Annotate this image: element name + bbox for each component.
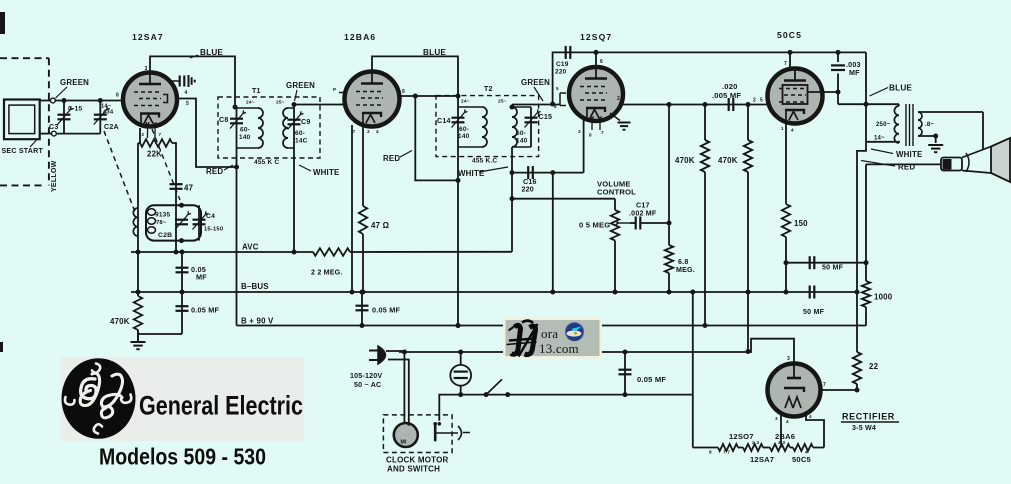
- svg-text:RED: RED: [206, 167, 223, 176]
- svg-text:4: 4: [809, 414, 812, 419]
- svg-text:BLUE: BLUE: [423, 48, 446, 57]
- svg-text:12SA7: 12SA7: [750, 455, 774, 464]
- svg-text:60-: 60-: [295, 130, 305, 137]
- svg-text:3: 3: [578, 129, 581, 134]
- svg-text:C14: C14: [437, 117, 451, 125]
- svg-text:5: 5: [760, 98, 763, 104]
- svg-text:C2A: C2A: [104, 123, 119, 131]
- svg-text:0 5 MEG: 0 5 MEG: [579, 221, 610, 230]
- svg-text:220: 220: [555, 69, 567, 76]
- svg-text:50 MF: 50 MF: [822, 264, 844, 272]
- svg-text:7: 7: [823, 382, 826, 388]
- svg-text:WHITE: WHITE: [896, 150, 922, 159]
- svg-text:8: 8: [709, 450, 712, 456]
- svg-text:105-120V: 105-120V: [350, 372, 382, 380]
- svg-text:C8: C8: [219, 116, 228, 124]
- svg-text:0.05 MF: 0.05 MF: [372, 306, 401, 315]
- svg-text:5: 5: [186, 101, 189, 107]
- svg-text:6: 6: [600, 59, 603, 65]
- svg-text:2 2 MEG.: 2 2 MEG.: [311, 269, 343, 277]
- svg-text:MEG.: MEG.: [676, 266, 695, 274]
- svg-text:24~: 24~: [246, 100, 255, 106]
- svg-text:470K: 470K: [110, 317, 130, 326]
- svg-text:13.com: 13.com: [539, 341, 579, 356]
- svg-text:0.05 MF: 0.05 MF: [637, 375, 666, 384]
- svg-text:3-5 W4: 3-5 W4: [852, 424, 876, 432]
- svg-text:2: 2: [753, 98, 756, 104]
- svg-text:CONTROL: CONTROL: [597, 188, 636, 197]
- svg-text:3: 3: [787, 356, 790, 362]
- svg-text:GREEN: GREEN: [521, 78, 550, 87]
- svg-text:140: 140: [516, 138, 528, 145]
- svg-text:WHITE: WHITE: [458, 169, 484, 178]
- svg-text:.005 MF: .005 MF: [712, 91, 741, 100]
- svg-text:3: 3: [775, 416, 778, 421]
- svg-text:25~: 25~: [276, 100, 285, 106]
- svg-text:47 Ω: 47 Ω: [371, 221, 389, 230]
- svg-text:8: 8: [589, 133, 592, 138]
- svg-text:60-: 60-: [516, 130, 526, 137]
- svg-text:50 MF: 50 MF: [803, 308, 825, 316]
- svg-text:BLUE: BLUE: [200, 48, 223, 57]
- svg-text:4: 4: [786, 419, 789, 424]
- svg-text:4: 4: [376, 129, 379, 134]
- svg-text:C9: C9: [301, 118, 310, 126]
- svg-text:470K: 470K: [718, 156, 738, 165]
- svg-text:MF: MF: [849, 69, 860, 77]
- svg-text:3: 3: [145, 66, 148, 72]
- svg-text:2BA6: 2BA6: [775, 432, 795, 441]
- svg-text:25~: 25~: [498, 99, 507, 105]
- svg-text:B–BUS: B–BUS: [241, 282, 269, 291]
- svg-text:.8~: .8~: [925, 122, 934, 128]
- svg-text:2 3: 2 3: [752, 440, 759, 446]
- svg-text:470K: 470K: [675, 156, 695, 165]
- svg-text:1000: 1000: [874, 293, 893, 302]
- svg-text:47: 47: [184, 184, 194, 193]
- svg-text:1: 1: [781, 126, 784, 131]
- svg-text:C15: C15: [539, 113, 553, 121]
- svg-text:150: 150: [794, 219, 808, 228]
- svg-text:6.8: 6.8: [678, 258, 688, 266]
- svg-text:12BA6: 12BA6: [344, 32, 376, 42]
- svg-text:C3: C3: [49, 123, 58, 131]
- svg-text:General Electric: General Electric: [139, 391, 303, 421]
- svg-text:4 3: 4 3: [778, 440, 785, 446]
- svg-text:MI: MI: [401, 440, 408, 446]
- svg-text:C19: C19: [556, 61, 569, 68]
- svg-text:2: 2: [617, 96, 620, 102]
- svg-text:.002 MF: .002 MF: [629, 210, 657, 218]
- svg-text:22K: 22K: [147, 150, 162, 159]
- svg-text:22: 22: [869, 362, 879, 371]
- svg-text:15-150: 15-150: [204, 227, 223, 233]
- svg-text:7 7: 7 7: [723, 450, 730, 456]
- svg-text:140: 140: [239, 134, 251, 141]
- svg-text:Modelos 509 - 530: Modelos 509 - 530: [99, 444, 266, 470]
- svg-text:250~: 250~: [876, 122, 891, 128]
- svg-text:50 ~ AC: 50 ~ AC: [354, 381, 381, 389]
- svg-text:14C: 14C: [295, 138, 308, 145]
- svg-text:12SQ7: 12SQ7: [580, 32, 612, 42]
- svg-text:8: 8: [116, 93, 119, 99]
- svg-text:9135: 9135: [155, 212, 170, 219]
- svg-text:4: 4: [185, 90, 188, 96]
- svg-text:C2B: C2B: [158, 232, 172, 239]
- svg-text:RECTIFIER: RECTIFIER: [842, 412, 895, 422]
- svg-text:0.05 MF: 0.05 MF: [191, 306, 220, 315]
- svg-text:7: 7: [159, 132, 162, 137]
- svg-text:GREEN: GREEN: [286, 81, 315, 90]
- svg-text:12SO7: 12SO7: [729, 432, 754, 441]
- svg-text:T1: T1: [252, 87, 261, 95]
- svg-text:BLUE: BLUE: [889, 84, 912, 93]
- svg-text:12SA7: 12SA7: [132, 32, 164, 42]
- svg-text:60-: 60-: [240, 127, 250, 134]
- svg-text:5: 5: [556, 86, 559, 91]
- svg-text:AND SWITCH: AND SWITCH: [387, 465, 440, 474]
- svg-text:4: 4: [791, 128, 794, 133]
- svg-text:MF: MF: [196, 273, 207, 282]
- svg-text:B + 90 V: B + 90 V: [241, 317, 274, 326]
- svg-text:7: 7: [353, 129, 356, 134]
- svg-text:GREEN: GREEN: [60, 78, 89, 87]
- svg-text:140: 140: [458, 133, 470, 140]
- svg-text:14~: 14~: [874, 136, 885, 142]
- svg-text:.003: .003: [846, 61, 861, 69]
- svg-text:CLOCK MOTOR: CLOCK MOTOR: [386, 456, 449, 465]
- svg-text:434: 434: [103, 110, 114, 116]
- svg-text:.020: .020: [722, 82, 738, 91]
- svg-text:RED: RED: [383, 154, 400, 163]
- svg-text:7: 7: [601, 130, 604, 135]
- svg-text:60-: 60-: [459, 126, 469, 133]
- svg-text:455 K.C: 455 K.C: [472, 158, 497, 165]
- svg-text:0-15: 0-15: [68, 106, 82, 113]
- svg-text:4: 4: [805, 450, 808, 456]
- svg-text:C4: C4: [206, 213, 215, 220]
- svg-text:220: 220: [522, 186, 534, 194]
- svg-text:P: P: [333, 87, 336, 92]
- svg-text:50C5: 50C5: [777, 30, 802, 40]
- svg-text:455 K C: 455 K C: [254, 159, 279, 166]
- svg-text:T2: T2: [484, 85, 493, 93]
- svg-text:SEC START: SEC START: [2, 147, 44, 155]
- svg-text:WHITE: WHITE: [313, 168, 339, 177]
- svg-text:50C5: 50C5: [792, 455, 812, 464]
- svg-text:7: 7: [784, 61, 787, 67]
- svg-text:2: 2: [142, 132, 145, 137]
- svg-text:24~: 24~: [461, 99, 470, 105]
- svg-text:C17: C17: [636, 202, 650, 210]
- svg-text:YELLOW: YELLOW: [50, 160, 58, 192]
- svg-text:AVC: AVC: [242, 243, 259, 252]
- svg-text:3: 3: [367, 129, 370, 134]
- svg-text:78~: 78~: [156, 220, 167, 226]
- svg-text:6: 6: [402, 89, 405, 95]
- svg-text:ora: ora: [541, 326, 558, 341]
